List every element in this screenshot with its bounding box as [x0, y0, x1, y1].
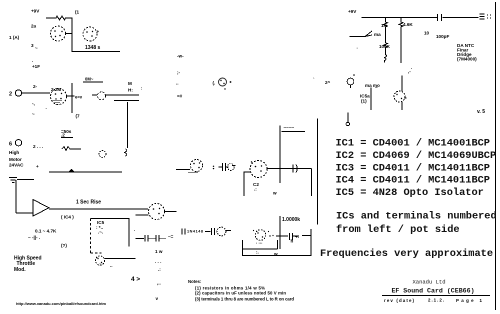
svg-text:.2: .2: [61, 133, 65, 138]
svg-text:.: .: [134, 227, 135, 232]
svg-text:2 . . .: 2 . . .: [33, 144, 43, 149]
svg-text:.:.: .:.: [98, 262, 102, 267]
svg-text:v: v: [156, 296, 159, 301]
svg-text:..: ..: [176, 81, 179, 86]
svg-text:IC5 = 4N28 Opto Isolator: IC5 = 4N28 Opto Isolator: [336, 187, 484, 199]
svg-text:-,: -,: [32, 101, 35, 106]
svg-text:24VAC: 24VAC: [9, 163, 24, 168]
svg-text:Motor: Motor: [9, 157, 22, 162]
svg-text:2: 2: [9, 92, 12, 98]
svg-text:http://www.xanadu.com/pinball/: http://www.xanadu.com/pinball/efsoundcar…: [16, 301, 107, 306]
svg-text:h: h: [291, 239, 294, 244]
svg-text:( IC4 ): ( IC4 ): [61, 215, 74, 220]
svg-text:~ -||- .: ~ -||- .: [28, 235, 40, 240]
svg-text:from left / pot side: from left / pot side: [336, 224, 460, 236]
svg-text:.: .: [32, 58, 33, 63]
svg-text:1K: 1K: [381, 23, 388, 28]
svg-text:3: 3: [31, 43, 34, 48]
svg-text:+9V: +9V: [31, 9, 40, 14]
svg-text:IC1 = CD4001 / MC14001BCP: IC1 = CD4001 / MC14001BCP: [336, 138, 490, 150]
svg-text:.:: .:: [158, 267, 161, 272]
svg-text:1 Sec Rise: 1 Sec Rise: [76, 200, 101, 206]
svg-text:,..: ,..: [157, 281, 161, 286]
svg-text:EF Sound Card (CEB66): EF Sound Card (CEB66): [391, 288, 474, 295]
svg-text:~: ~: [375, 85, 378, 90]
svg-text:w: w: [273, 252, 278, 257]
svg-text:10: 10: [424, 31, 430, 36]
svg-text:1 w: 1 w: [155, 249, 163, 254]
svg-text:IC2 = CD4069 / MC14069UBCP: IC2 = CD4069 / MC14069UBCP: [336, 150, 497, 162]
svg-text:.: .: [46, 105, 47, 110]
svg-text:ma mo: ma mo: [365, 83, 380, 88]
svg-text:=#: =#: [177, 94, 183, 99]
svg-text:;-: ;-: [177, 70, 181, 75]
svg-text:0.1 ~ 4.7K: 0.1 ~ 4.7K: [35, 229, 57, 234]
svg-text:(7: (7: [76, 114, 81, 119]
svg-text:6: 6: [9, 142, 12, 148]
svg-text:IC3 = CD4011 / MC14011BCP: IC3 = CD4011 / MC14011BCP: [336, 162, 490, 174]
svg-text:+9V: +9V: [348, 9, 357, 14]
svg-text:0M~: 0M~: [85, 77, 94, 82]
svg-text:(2) capacitors in uF unless no: (2) capacitors in uF unless noted 50 V m…: [195, 291, 286, 296]
svg-text:~: ~: [32, 112, 35, 117]
svg-text:v. 5: v. 5: [477, 109, 485, 115]
svg-text:H:: H:: [128, 88, 133, 93]
svg-text:.: .: [411, 65, 412, 70]
svg-text:(1: (1: [75, 10, 80, 15]
svg-text:1 (A): 1 (A): [9, 35, 20, 40]
svg-text:rev (date): rev (date): [384, 298, 415, 303]
svg-text:2-: 2-: [33, 84, 38, 89]
svg-text:100pF: 100pF: [436, 34, 449, 39]
svg-text:. . .: . . .: [155, 259, 161, 264]
svg-text:. ...: . ...: [256, 240, 262, 245]
svg-text:+: +: [36, 164, 39, 169]
svg-text::.: :.: [256, 250, 259, 255]
svg-text:High: High: [9, 150, 19, 155]
svg-text:(7M4000): (7M4000): [457, 57, 477, 62]
svg-text:ICs and terminals numbered: ICs and terminals numbered: [336, 211, 497, 223]
svg-text:M: M: [128, 81, 132, 86]
svg-text:2^: 2^: [325, 80, 331, 85]
svg-text:(1): (1): [361, 99, 367, 104]
svg-text:,-: ,-: [408, 69, 411, 74]
svg-text:1348 s: 1348 s: [85, 45, 101, 51]
svg-text:Frequencies very approximate: Frequencies very approximate: [320, 248, 493, 260]
svg-text:ma: ma: [374, 32, 381, 37]
svg-text:.~.: .~.: [98, 230, 103, 235]
svg-text:..: ..: [110, 263, 113, 268]
svg-text:(?): (?): [61, 243, 67, 248]
svg-text:(3) terminals 1 thru 8 are num: (3) terminals 1 thru 8 are numbered L to…: [195, 297, 294, 302]
svg-text:(.: (.: [213, 81, 216, 86]
svg-text:+: +: [97, 29, 100, 34]
svg-text:IC4 = CD4011 / MC14011BCP: IC4 = CD4011 / MC14011BCP: [336, 175, 490, 187]
svg-text::: :: [141, 86, 142, 91]
svg-text:~~~~: ~~~~: [284, 125, 295, 130]
svg-text:.: .: [357, 45, 358, 50]
svg-text:+1F: +1F: [32, 64, 40, 69]
svg-text:~=: ~=: [168, 234, 174, 239]
svg-text:=: =: [404, 96, 407, 101]
svg-text:2.1.2.: 2.1.2.: [428, 298, 444, 303]
svg-text:.:: .:: [254, 187, 257, 192]
svg-text:1.0000k: 1.0000k: [282, 217, 300, 223]
svg-text:~: ~: [35, 46, 38, 51]
svg-text:+-: +-: [295, 235, 300, 240]
svg-text:Notes:: Notes:: [188, 279, 202, 284]
svg-text:e=v: e=v: [75, 95, 83, 100]
svg-text:1N4148: 1N4148: [187, 230, 203, 234]
svg-text:4.6K: 4.6K: [403, 22, 413, 27]
svg-text:Mod.: Mod.: [14, 267, 26, 273]
svg-text:Xanadu Ltd: Xanadu Ltd: [412, 279, 445, 286]
svg-text:-w-: -w-: [177, 54, 184, 59]
svg-text:100K: 100K: [379, 44, 391, 49]
svg-text:2a: 2a: [31, 24, 37, 29]
svg-text:4 >: 4 >: [131, 276, 140, 283]
svg-text:w: w: [272, 191, 277, 196]
svg-text:2.2M: 2.2M: [51, 87, 61, 92]
